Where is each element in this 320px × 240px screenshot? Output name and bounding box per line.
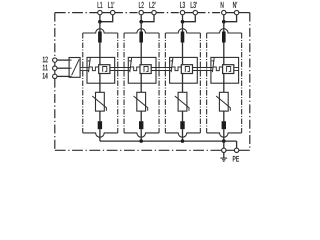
- lower disconnector module 4 (filled): [222, 121, 226, 129]
- wire disconnector to circuit box: [140, 43, 142, 58]
- node bus junction x=223.8: [222, 139, 226, 143]
- wire into spark gap: [99, 57, 101, 64]
- varistor RV4: [219, 92, 228, 111]
- coupling link module 2 to module 3: [151, 67, 172, 69]
- signalling stub 11: [69, 67, 72, 69]
- node bus junction x=141.2: [139, 139, 143, 143]
- terminal L3 prime: [193, 10, 197, 14]
- terminal N prime: [234, 10, 238, 14]
- thermal switch lever module 4: [212, 58, 214, 72]
- enclosure boundary: top edge: [55, 12, 98, 14]
- wire N terminal down to junction: [223, 15, 225, 22]
- wire into spark gap: [223, 57, 225, 64]
- wire L1 terminal down to junction: [99, 15, 101, 22]
- PE bus wire: [100, 140, 237, 142]
- wire L2 prime terminal down and left to junction: [141, 15, 154, 22]
- terminal PE b: [234, 148, 238, 152]
- wire to PE bus: [223, 129, 225, 141]
- varistor RV2: [137, 92, 146, 111]
- wire terminal 12: [57, 59, 69, 61]
- wire spark gap to box bottom: [182, 74, 184, 84]
- spark gap box module 4: [223, 65, 234, 74]
- label PE: [233, 156, 239, 161]
- label L1 prime: [108, 2, 114, 8]
- terminal L1 prime: [111, 10, 115, 14]
- wire L2 terminal down to junction: [140, 15, 142, 22]
- label 11: [43, 65, 48, 71]
- spark gap box module 1: [99, 65, 110, 74]
- node junction L3: [181, 20, 185, 24]
- wire to PE bus: [182, 129, 184, 141]
- label N: [221, 2, 224, 8]
- trigger wave link module 3: [172, 67, 182, 71]
- node junction L1: [98, 20, 102, 24]
- label L1: [98, 2, 103, 8]
- coupling link module 1 to module 2: [110, 67, 131, 69]
- wire terminal 14: [57, 75, 69, 77]
- monitoring circuit box module 1: [87, 57, 115, 83]
- monitoring circuit box module 4: [211, 57, 239, 83]
- label L2: [139, 2, 144, 8]
- monitoring circuit box module 3: [170, 57, 198, 83]
- coupling link signalling box to module 1: [80, 67, 89, 69]
- trigger wave link module 4: [213, 67, 223, 71]
- enclosure boundary: right edge: [249, 13, 251, 151]
- label 12: [43, 57, 48, 63]
- enclosure boundary: bottom edge: [55, 149, 222, 151]
- impulse symbol module 4: [227, 67, 231, 72]
- node junction N: [222, 20, 226, 24]
- lower disconnector module 2 (filled): [139, 121, 143, 129]
- coupling link module 3 to module 4: [193, 67, 214, 69]
- terminal 11: [53, 66, 57, 70]
- signalling stub 14: [69, 75, 72, 77]
- trigger wave link module 2: [131, 67, 141, 71]
- terminal L2: [139, 10, 143, 14]
- wire disconnector to circuit box: [223, 43, 225, 58]
- disconnector F4 (filled): [222, 32, 226, 43]
- wire varistor to lower disconnector: [182, 111, 184, 121]
- label 14: [43, 73, 48, 79]
- wire varistor to lower disconnector: [140, 111, 142, 121]
- disconnector F2 (filled): [139, 32, 143, 43]
- wire box to varistor: [223, 83, 225, 92]
- node junction L2: [139, 20, 143, 24]
- signalling stub 12: [69, 59, 72, 61]
- enclosure boundary: left edge: [54, 13, 56, 58]
- wire spark gap to box bottom: [140, 74, 142, 84]
- wire L1 prime terminal down and left to junction: [100, 15, 113, 22]
- thermal switch lever module 2: [130, 58, 132, 72]
- wire box to varistor: [99, 83, 101, 92]
- monitoring circuit box module 2: [128, 57, 156, 83]
- module 4 outline (N protection path): [207, 29, 242, 33]
- impulse symbol module 3: [185, 67, 189, 72]
- wire box to varistor: [182, 83, 184, 92]
- spark gap box module 3: [181, 65, 192, 74]
- wire disconnector to circuit box: [182, 43, 184, 58]
- ground symbol: [223, 153, 225, 158]
- wire junction to disconnector: [182, 22, 184, 32]
- wire terminal 11: [57, 67, 69, 69]
- module 2 outline (L2 protection path): [124, 29, 159, 33]
- label L2 prime: [149, 2, 155, 8]
- wire varistor to lower disconnector: [223, 111, 225, 121]
- changeover switch lever: [72, 59, 80, 75]
- terminal N: [222, 10, 226, 14]
- disconnector F1 (filled): [98, 32, 102, 43]
- remote signalling contact box: [69, 58, 80, 78]
- varistor RV1: [96, 92, 105, 111]
- coupling link module 4 stub: [234, 67, 239, 69]
- wire L3 prime terminal down and left to junction: [183, 15, 196, 22]
- wire into spark gap: [140, 57, 142, 64]
- terminal L3: [180, 10, 184, 14]
- impulse symbol module 1: [103, 67, 107, 72]
- terminal L2 prime: [152, 10, 156, 14]
- wire junction to disconnector: [223, 22, 225, 32]
- wire to PE bus: [99, 129, 101, 141]
- terminal L1: [98, 10, 102, 14]
- wire junction to disconnector: [140, 22, 142, 32]
- wire L3 terminal down to junction: [182, 15, 184, 22]
- wire bus to PE terminal 2: [236, 141, 238, 148]
- wire to PE bus: [140, 129, 142, 141]
- wire N prime terminal down and left to junction: [224, 15, 237, 22]
- wire varistor to lower disconnector: [99, 111, 101, 121]
- module 1 outline (L1 protection path): [83, 29, 118, 33]
- node bus junction x=182.5: [181, 139, 185, 143]
- spark gap box module 2: [140, 65, 151, 74]
- impulse symbol module 2: [144, 67, 148, 72]
- terminal 14: [53, 74, 57, 78]
- module 3 outline (L3 protection path): [165, 29, 200, 33]
- label L3 prime: [191, 2, 197, 8]
- terminal 12: [53, 58, 57, 62]
- wire into spark gap: [182, 57, 184, 64]
- disconnector F3 (filled): [181, 32, 185, 43]
- trigger wave link module 1: [89, 67, 99, 71]
- label N prime: [233, 2, 237, 8]
- varistor RV3: [178, 92, 187, 111]
- wire spark gap to box bottom: [99, 74, 101, 84]
- thermal switch lever module 3: [171, 58, 173, 72]
- wire disconnector to circuit box: [99, 43, 101, 58]
- label L3: [180, 2, 185, 8]
- terminal PE a: [222, 148, 226, 152]
- thermal switch lever module 1: [89, 58, 91, 72]
- lower disconnector module 1 (filled): [98, 121, 102, 129]
- wire box to varistor: [140, 83, 142, 92]
- wire spark gap to box bottom: [223, 74, 225, 84]
- wire bus to PE terminal 1: [223, 141, 225, 148]
- lower disconnector module 3 (filled): [180, 121, 184, 129]
- wire junction to disconnector: [99, 22, 101, 32]
